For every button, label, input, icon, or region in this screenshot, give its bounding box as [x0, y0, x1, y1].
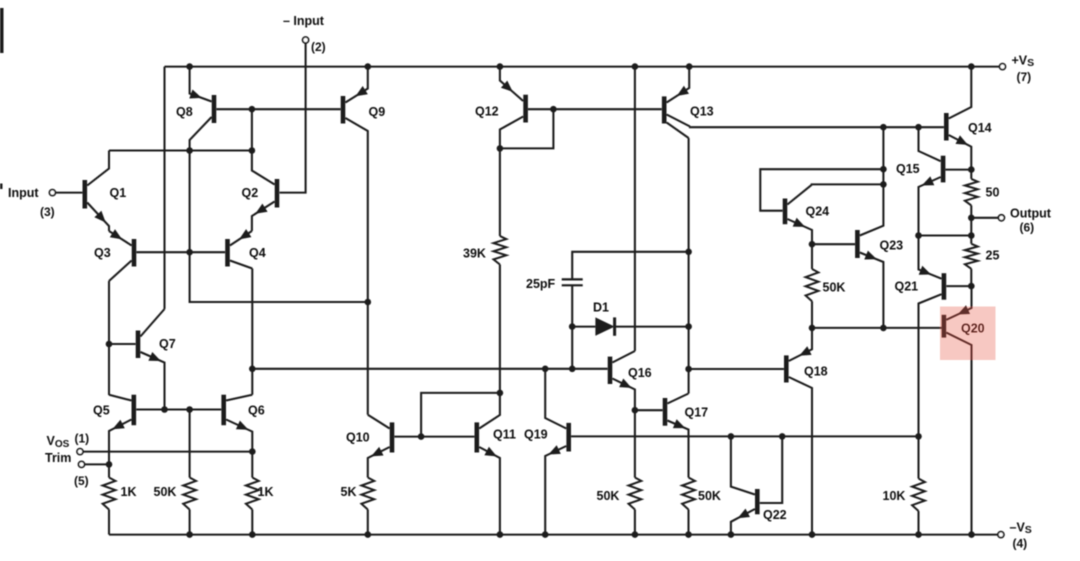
svg-text:25: 25	[986, 249, 1000, 263]
junction Q2 collector node	[249, 147, 256, 154]
label Q12	[475, 105, 499, 119]
transistor Q15	[919, 127, 944, 235]
junction Q12 emitter on +Vs rail	[497, 63, 504, 70]
resistor R6 50K	[629, 410, 642, 534]
junction Q15 emitter node	[915, 232, 922, 239]
junction Q15 collector on Q14 base	[915, 124, 922, 131]
svg-text:D1: D1	[593, 301, 609, 315]
svg-text:– Input: – Input	[283, 14, 325, 28]
junction Q18 base node	[685, 366, 692, 373]
svg-text:(7): (7)	[1017, 70, 1032, 84]
svg-text:Q21: Q21	[895, 280, 919, 294]
transistor Q1	[85, 151, 109, 232]
svg-text:Q14: Q14	[968, 121, 992, 135]
svg-text:(3): (3)	[40, 205, 55, 219]
junction Q8 collector node	[186, 147, 193, 154]
label Q14	[968, 121, 992, 135]
svg-text:Input: Input	[8, 186, 39, 200]
transistor Q12	[500, 67, 526, 149]
svg-text:Trim: Trim	[45, 451, 71, 465]
label Q10	[346, 431, 370, 445]
label - Input (2)	[283, 14, 326, 54]
wire +Vs top rail	[165, 66, 1000, 68]
label Q19	[524, 428, 548, 442]
svg-text:Q9: Q9	[369, 105, 386, 119]
junction Q14 collector on +Vs rail	[968, 63, 975, 70]
svg-text:50: 50	[986, 186, 1000, 200]
label Q2	[242, 186, 259, 200]
junction D1 cathode to Q13 collector B	[685, 323, 692, 330]
svg-text:Q11: Q11	[493, 428, 516, 442]
terminal -Vs pin 4	[998, 532, 1004, 538]
transistor Q9	[343, 67, 368, 302]
junction Q11 collector node	[497, 390, 504, 397]
terminal Vos Trim pin 5	[79, 461, 110, 467]
wire Q24 base loop	[760, 169, 883, 211]
label 39K	[463, 247, 486, 261]
label D1	[593, 301, 609, 315]
terminal +Vs pin 7	[1000, 64, 1006, 70]
label 10K	[883, 489, 906, 503]
junction 50K Q16 on rail	[632, 531, 639, 538]
wire Q24 collector line	[812, 183, 884, 185]
junction Q3-Q4 base node	[186, 249, 193, 256]
label Q8	[176, 105, 193, 119]
resistor R9 50	[965, 170, 978, 218]
label 25pF	[526, 277, 556, 291]
wire Q10 base to Q11 collector loop	[421, 393, 500, 437]
label Vos Trim	[45, 432, 89, 489]
transistor Q21	[919, 236, 944, 437]
label Q24	[806, 205, 830, 219]
svg-text:1K: 1K	[258, 485, 274, 499]
label Q6	[248, 404, 265, 418]
resistor R3 1K	[246, 478, 259, 535]
terminal -Input pin 2	[280, 37, 309, 193]
junction Q24 collector on Q23 collector	[880, 181, 887, 188]
terminal Output pin 6	[971, 215, 1004, 221]
label 1K left	[121, 485, 137, 499]
transistor Q24	[785, 185, 812, 244]
wire Q13 collector A to Q14 base	[690, 125, 944, 128]
junction 5K on rail	[365, 531, 372, 538]
junction Q21 base node	[968, 283, 975, 290]
label Q15	[896, 162, 920, 176]
wire Q21 base	[946, 285, 971, 287]
terminal Vos Trim pin 1	[77, 449, 252, 455]
transistor Q18	[786, 328, 812, 535]
highlight box on Q20	[940, 307, 996, 361]
svg-text:50K: 50K	[597, 489, 620, 503]
junction Q13 emitter on +Vs rail	[686, 63, 693, 70]
transistor Q5	[109, 395, 134, 478]
svg-text:Q23: Q23	[880, 239, 904, 253]
junction 10K on rail	[915, 531, 922, 538]
wire Q13 collector B column	[688, 138, 690, 394]
transistor Q4	[228, 229, 253, 268]
svg-text:Q13: Q13	[690, 105, 714, 119]
svg-text:(6): (6)	[1020, 221, 1035, 235]
transistor Q13	[664, 67, 690, 138]
svg-text:10K: 10K	[883, 489, 906, 503]
junction Q19 collector node	[542, 366, 549, 373]
resistor R8 50K	[806, 244, 819, 328]
transistor Q19	[545, 369, 569, 535]
junction Q9-Q10 collector node	[365, 299, 372, 306]
junction second stage input node	[249, 366, 256, 373]
label Q20	[961, 322, 985, 336]
junction D1 anode branch	[569, 323, 576, 330]
resistor R4 5K	[361, 478, 374, 535]
wire Q15 emitter tie line	[919, 234, 972, 236]
wire Q16 collector riser	[634, 67, 636, 351]
resistor R11 10K	[912, 436, 925, 534]
svg-text:Output: Output	[1010, 207, 1052, 221]
wire Q7 base	[109, 343, 136, 345]
label 50K mid-left	[154, 485, 177, 499]
svg-text:Q3: Q3	[94, 246, 111, 260]
svg-text:50K: 50K	[698, 489, 721, 503]
transistor Q16	[610, 351, 635, 410]
svg-text:Q10: Q10	[346, 431, 370, 445]
label Q11	[493, 428, 516, 442]
junction Q22 collector tie	[728, 433, 735, 440]
svg-text:Q4: Q4	[249, 246, 266, 260]
svg-text:50K: 50K	[823, 281, 846, 295]
junction 50K on rail	[186, 531, 193, 538]
wire Q8 collector to Q3-Q4 base	[190, 151, 368, 303]
transistor Q14	[946, 67, 971, 170]
svg-text:Q5: Q5	[93, 404, 110, 418]
label Q5	[93, 404, 110, 418]
resistor R1 1K	[103, 478, 116, 535]
junction Q16 emitter node	[632, 407, 639, 414]
junction Q23 emitter on Q20 base	[880, 325, 887, 332]
transistor Q8	[189, 67, 214, 151]
wire Q3-Q4 base line	[136, 251, 225, 253]
label 50K under Q16	[597, 489, 620, 503]
wire Q16 base line	[252, 368, 607, 370]
label Q7	[159, 337, 176, 351]
junction cap branch node	[569, 366, 576, 373]
svg-text:Q19: Q19	[524, 428, 548, 442]
junction Q24 base on Q23 collector	[880, 166, 887, 173]
wire Q23 base	[812, 243, 855, 245]
junction Q16 collector on +Vs rail	[632, 63, 639, 70]
junction Q15 base node	[968, 166, 975, 173]
junction Q18 collector on rail	[809, 531, 816, 538]
wire Q20 base line	[812, 327, 942, 329]
junction Q12 collector node	[497, 145, 504, 152]
transistor Q6	[224, 395, 253, 478]
junction Q9 emitter on +Vs rail	[365, 63, 372, 70]
label 50	[986, 186, 1000, 200]
transistor Q3	[109, 229, 134, 281]
label Q22	[763, 508, 787, 522]
label Q13	[690, 105, 714, 119]
label Q18	[804, 365, 828, 379]
wire Q1-Q2 collector link	[109, 109, 252, 150]
svg-text:Q15: Q15	[896, 162, 920, 176]
junction Q18 emitter node	[809, 325, 816, 332]
scan artifact left edge	[0, 8, 4, 189]
wire Q19 base line	[571, 435, 918, 437]
junction Q22 base tie	[779, 433, 786, 440]
wire Q9 collector to Q10	[367, 302, 369, 415]
junction Q21 collector node	[915, 433, 922, 440]
wire Q12-Q13 base line	[528, 108, 662, 110]
junction 50K tap node	[186, 406, 193, 413]
svg-text:Q6: Q6	[248, 404, 265, 418]
label Q17	[685, 406, 709, 420]
wire Q15 base	[946, 169, 972, 171]
label 5K	[341, 485, 357, 499]
label Q9	[369, 105, 386, 119]
junction 50K Q17 on rail	[685, 531, 692, 538]
svg-text:Q12: Q12	[475, 105, 499, 119]
junction Q7 emitter node	[161, 406, 168, 413]
junction Q23 base node	[809, 241, 816, 248]
wire Q18 base line	[689, 368, 784, 370]
wire output to 25	[970, 218, 972, 244]
transistor Q7	[138, 309, 165, 410]
svg-text:(4): (4)	[1013, 537, 1028, 551]
svg-text:25pF: 25pF	[526, 277, 556, 291]
junction pin1 to Q6 emitter	[249, 448, 256, 455]
label Input (3)	[8, 186, 55, 219]
svg-text:(1): (1)	[75, 432, 90, 446]
junction cap to Q13 collector B	[685, 249, 692, 256]
junction output node	[968, 215, 975, 222]
label 50K under Q17	[698, 489, 721, 503]
transistor Q10	[368, 415, 392, 478]
svg-text:Q24: Q24	[806, 205, 830, 219]
wire 39K to Q11 collector	[499, 265, 501, 393]
wire Q22 base	[760, 436, 783, 503]
svg-text:50K: 50K	[154, 485, 177, 499]
label Q21	[895, 280, 919, 294]
transistor Q20	[944, 286, 972, 534]
wire cap bottom branch	[571, 285, 573, 369]
transistor Q23	[857, 127, 883, 328]
wire Q7 collector riser	[163, 67, 165, 309]
svg-text:Q1: Q1	[110, 186, 127, 200]
svg-text:Q16: Q16	[628, 366, 652, 380]
terminal +Input pin 3	[49, 190, 82, 196]
junction Q8 base tie	[249, 106, 256, 113]
label +Vs	[1012, 54, 1035, 85]
svg-text:(5): (5)	[74, 474, 89, 488]
resistor R7 50K	[682, 478, 695, 535]
junction Q20 collector on rail	[968, 531, 975, 538]
wire Q10-Q11 base line	[394, 436, 474, 438]
wire Q17 base	[635, 409, 663, 411]
wire Q5-Q6 base line	[136, 408, 221, 410]
label -Vs	[1010, 521, 1032, 551]
label 50K Q24	[823, 281, 846, 295]
transistor Q17	[665, 394, 689, 478]
label Q1	[110, 186, 127, 200]
junction Q10 base tie	[418, 433, 425, 440]
junction Q19 emitter on rail	[542, 531, 549, 538]
wire Q12 collector to 39K	[499, 148, 501, 236]
label Q23	[880, 239, 904, 253]
junction Q7 base node	[106, 341, 113, 348]
diode D1	[572, 317, 688, 335]
svg-text:Q17: Q17	[685, 406, 709, 420]
wire Q8-Q9 base line	[216, 108, 340, 110]
junction 1K right on rail	[249, 531, 256, 538]
svg-text:Q22: Q22	[763, 508, 787, 522]
svg-text:Q8: Q8	[176, 105, 193, 119]
wire Q12 diode tie	[500, 109, 554, 148]
junction Q15-Q21 emitter tie	[968, 232, 975, 239]
junction Q12 base tie	[550, 106, 557, 113]
junction Q22 emitter on rail	[728, 531, 735, 538]
junction pin5 to Q5 emitter	[106, 461, 113, 468]
capacitor C1 25pF	[562, 279, 583, 285]
svg-text:5K: 5K	[341, 485, 357, 499]
svg-text:1K: 1K	[121, 485, 137, 499]
transistor Q11	[477, 393, 500, 535]
transistor Q22	[731, 436, 757, 534]
label 1K right	[258, 485, 274, 499]
label Q3	[94, 246, 111, 260]
wire Q4-Q6 collector column	[251, 269, 253, 395]
svg-text:(2): (2)	[311, 40, 326, 54]
svg-text:Q2: Q2	[242, 186, 259, 200]
resistor R5 39K	[494, 236, 507, 265]
label Q16	[628, 366, 652, 380]
junction Q8 emitter on +Vs rail	[186, 63, 193, 70]
label Q4	[249, 246, 266, 260]
wire 25 to Q20 emitter	[970, 269, 972, 286]
wire Q3-Q5 collector column	[108, 281, 110, 395]
wire -Vs bottom rail	[109, 534, 998, 536]
svg-text:Q7: Q7	[159, 337, 176, 351]
wire cap top branch	[572, 252, 688, 280]
resistor R2 50K	[183, 410, 196, 535]
label 25	[986, 249, 1000, 263]
junction Q23 collector on Q14 base line	[880, 124, 887, 131]
label Output (6)	[1010, 207, 1052, 235]
resistor R10 25	[965, 244, 978, 269]
junction Q11 emitter on rail	[497, 531, 504, 538]
svg-text:Q18: Q18	[804, 365, 828, 379]
transistor Q2	[252, 151, 277, 232]
svg-text:39K: 39K	[463, 247, 486, 261]
